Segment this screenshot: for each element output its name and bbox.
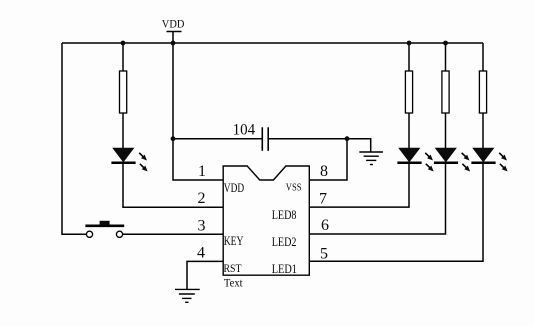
- svg-text:6: 6: [321, 217, 329, 234]
- svg-text:5: 5: [320, 245, 328, 262]
- svg-text:LED8: LED8: [272, 207, 297, 222]
- svg-text:RST: RST: [224, 261, 243, 275]
- svg-text:LED2: LED2: [272, 234, 297, 249]
- svg-text:2: 2: [198, 190, 206, 207]
- svg-text:1: 1: [198, 163, 206, 180]
- svg-text:Text: Text: [224, 275, 243, 289]
- svg-text:8: 8: [320, 163, 328, 180]
- svg-text:4: 4: [197, 245, 205, 262]
- svg-text:VDD: VDD: [162, 17, 185, 31]
- svg-text:VDD: VDD: [224, 180, 244, 195]
- svg-text:VSS: VSS: [286, 182, 302, 194]
- svg-text:LED1: LED1: [272, 261, 297, 276]
- svg-text:3: 3: [198, 218, 206, 235]
- svg-text:7: 7: [319, 191, 327, 208]
- svg-text:104: 104: [233, 122, 256, 139]
- svg-text:KEY: KEY: [224, 234, 244, 248]
